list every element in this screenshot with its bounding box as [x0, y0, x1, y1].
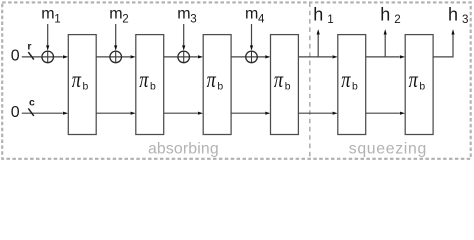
arrowhead into U2 (c) [131, 112, 136, 115]
svg-text:b: b [419, 81, 425, 92]
arrowhead into U5 (c) [333, 112, 338, 115]
svg-text:b: b [150, 81, 156, 92]
svg-text:m: m [109, 5, 122, 22]
svg-text:3: 3 [190, 12, 196, 25]
svg-text:1: 1 [54, 12, 60, 25]
wire c U2-U3 [164, 112, 198, 114]
svg-text:π: π [139, 66, 149, 93]
wire c U1-U2 [96, 112, 130, 114]
label m4 [245, 5, 265, 25]
svg-text:3: 3 [462, 13, 468, 26]
wire c U5-U6 [366, 112, 400, 114]
box U2 pi_b [136, 35, 164, 135]
xor X2 [110, 51, 122, 63]
svg-text:squeezing: squeezing [349, 140, 427, 157]
wire r U5-U6 [366, 56, 400, 58]
xor X1 [42, 51, 54, 63]
arrow m1 into X1 [46, 24, 49, 51]
dashed divider between absorbing and squeezing [309, 2, 311, 158]
svg-text:r: r [27, 41, 31, 53]
svg-text:π: π [409, 66, 419, 93]
bus slash r [28, 52, 34, 60]
arrowhead into U1 (c) [63, 112, 68, 115]
svg-text:π: π [341, 66, 351, 93]
svg-text:1: 1 [327, 13, 333, 26]
arrow m4 into X4 [250, 24, 253, 51]
svg-text:b: b [217, 81, 223, 92]
wire r U2-U3 [164, 56, 198, 58]
arrow h2 output [384, 29, 387, 57]
arrowhead into U5 (r) [333, 55, 338, 58]
arrowhead into U2 (r) [131, 55, 136, 58]
box U4 pi_b [271, 35, 299, 135]
wire r U3-U4 [231, 56, 265, 58]
arrowhead into U3 (r) [198, 55, 203, 58]
label m2 [109, 5, 128, 25]
arrowhead into U6 (c) [400, 112, 405, 115]
xor X3 [178, 51, 190, 63]
svg-text:π: π [72, 66, 82, 93]
box U3 pi_b [203, 35, 231, 135]
arrowhead into U1 (r) [63, 55, 68, 58]
svg-text:0: 0 [11, 47, 20, 64]
svg-text:4: 4 [258, 12, 265, 25]
svg-text:absorbing: absorbing [148, 140, 219, 157]
label m1 [41, 5, 60, 25]
arrow m2 into X2 [114, 24, 117, 51]
wire r U4-U5 [298, 56, 332, 58]
wire c input [22, 112, 63, 114]
box U6 pi_b [405, 35, 433, 135]
arrowhead into U6 (r) [400, 55, 405, 58]
svg-text:m: m [245, 5, 258, 22]
label h1 [313, 4, 333, 25]
xor X4 [246, 51, 258, 63]
wire r U6 output bend [433, 35, 453, 57]
box U5 pi_b [338, 35, 366, 135]
svg-text:b: b [352, 81, 358, 92]
arrow m3 into X3 [182, 24, 185, 51]
arrow h1 output [317, 29, 320, 57]
label h3 [448, 4, 468, 25]
wire r U1-U2 [96, 56, 130, 58]
svg-text:b: b [83, 81, 89, 92]
outer dashed frame [2, 2, 471, 158]
svg-text:h: h [448, 4, 458, 24]
bus slash c [28, 108, 34, 116]
svg-text:π: π [207, 66, 217, 93]
svg-text:c: c [29, 97, 35, 109]
svg-text:0: 0 [11, 104, 20, 121]
svg-text:h: h [313, 4, 323, 24]
svg-text:2: 2 [122, 12, 128, 25]
box U1 pi_b [68, 35, 96, 135]
wire r input [22, 56, 63, 58]
arrowhead into U4 (r) [265, 55, 270, 58]
wire c U4-U5 [298, 112, 332, 114]
arrowhead into U4 (c) [265, 112, 270, 115]
wire c U3-U4 [231, 112, 265, 114]
svg-text:m: m [177, 5, 190, 22]
svg-text:2: 2 [394, 13, 400, 26]
label m3 [177, 5, 196, 25]
arrowhead into U3 (c) [198, 112, 203, 115]
svg-text:b: b [285, 81, 291, 92]
svg-text:π: π [274, 66, 284, 93]
svg-text:h: h [380, 4, 390, 24]
svg-text:m: m [41, 5, 54, 22]
arrow h3 output [451, 29, 454, 34]
label h2 [380, 4, 400, 25]
